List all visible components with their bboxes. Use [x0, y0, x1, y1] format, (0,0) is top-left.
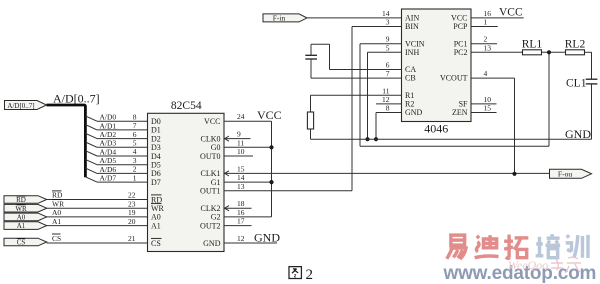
- wire WR (pin 23): [47, 199, 148, 208]
- svg-text:GND: GND: [565, 127, 591, 141]
- wire CLK1 pin 15 to F-out net: [224, 164, 550, 176]
- svg-text:1: 1: [133, 173, 137, 182]
- stub CLK0 pin 9: [224, 130, 251, 142]
- svg-text:RL2: RL2: [565, 39, 586, 51]
- wire PC2 pin 13 to RL1: [471, 43, 523, 52]
- svg-text:7: 7: [133, 121, 137, 130]
- wire RL1 to RL2: [542, 51, 566, 53]
- 4046 right pin names: [440, 14, 468, 118]
- junction G1-VCC: [269, 180, 273, 184]
- svg-text:9: 9: [237, 130, 241, 139]
- wire R1 pin 11 to resistor R: [311, 86, 402, 112]
- junction GND8-groundnet: [374, 137, 378, 141]
- svg-text:VCC: VCC: [499, 6, 523, 18]
- svg-text:14: 14: [237, 173, 245, 182]
- svg-text:ZEN: ZEN: [452, 108, 468, 117]
- wire CS (pin 21): [47, 234, 148, 243]
- resistor R vertical: [307, 112, 313, 129]
- svg-text:4046: 4046: [424, 122, 448, 136]
- svg-text:A1: A1: [17, 222, 26, 230]
- svg-text:D6: D6: [151, 169, 161, 178]
- wire VCC tie vertical to G0 G1 G2: [224, 121, 272, 217]
- bus entry + wire A/D0 (pin 8): [85, 112, 147, 121]
- svg-text:20: 20: [128, 217, 136, 226]
- bus entry + wire A/D4 (pin 4): [85, 147, 147, 156]
- svg-text:12: 12: [237, 234, 245, 243]
- svg-text:A/D5: A/D5: [100, 156, 117, 165]
- wire INH pin 5 to ground net: [368, 43, 402, 139]
- svg-text:7: 7: [386, 69, 390, 78]
- svg-text:A/D7: A/D7: [100, 174, 117, 183]
- svg-text:GND: GND: [405, 108, 423, 117]
- 4046 left pin names: [405, 14, 425, 118]
- svg-text:13: 13: [484, 43, 492, 52]
- bus entry + wire A/D1 (pin 7): [85, 121, 147, 130]
- svg-text:G0: G0: [211, 143, 221, 152]
- port connector A0: [4, 213, 47, 221]
- bus entry + wire A/D2 (pin 6): [85, 130, 147, 139]
- resistor RL2: [565, 39, 586, 55]
- svg-text:CLK1: CLK1: [201, 169, 221, 178]
- svg-text:PC2: PC2: [454, 48, 468, 57]
- svg-text:A/D6: A/D6: [100, 165, 117, 174]
- stub CLK2 pin 18: [224, 199, 252, 211]
- svg-text:CS: CS: [17, 239, 26, 247]
- wire VCIN pin 9 to loop filter: [360, 35, 549, 147]
- stub OUT2 pin 17: [224, 217, 252, 226]
- port connector F-out: [550, 169, 592, 178]
- svg-text:BIN: BIN: [405, 22, 419, 31]
- svg-text:F-in: F-in: [273, 14, 286, 23]
- svg-text:CS: CS: [52, 234, 61, 243]
- svg-text:WR: WR: [151, 204, 165, 213]
- stub GND pin 12 + GND label: [224, 230, 280, 244]
- svg-text:A/D2: A/D2: [100, 130, 117, 139]
- svg-text:A/D1: A/D1: [100, 121, 117, 130]
- svg-text:OUT0: OUT0: [200, 152, 220, 161]
- junction RL1-RL2-VCIN: [547, 50, 551, 54]
- svg-text:16: 16: [237, 208, 245, 217]
- junction VCOUT-CLK1-Fout: [512, 172, 516, 176]
- svg-text:A0: A0: [151, 213, 161, 222]
- svg-text:OUT1: OUT1: [200, 187, 220, 196]
- svg-text:4: 4: [133, 147, 137, 156]
- net label A/D[0..7]: [53, 92, 100, 106]
- svg-text:G2: G2: [211, 213, 221, 222]
- svg-text:15: 15: [484, 104, 492, 113]
- svg-text:A1: A1: [151, 221, 161, 230]
- stub SF pin 10: [471, 95, 497, 104]
- svg-text:VCC: VCC: [204, 117, 220, 126]
- wire CB pin 7 from capacitor C1: [311, 59, 402, 78]
- capacitor C1: [305, 55, 317, 59]
- svg-text:10: 10: [237, 147, 245, 156]
- bus entry + wire A/D3 (pin 5): [85, 139, 147, 148]
- bus A/D: [47, 105, 86, 177]
- svg-text:3: 3: [133, 156, 137, 165]
- svg-text:PCP: PCP: [453, 22, 468, 31]
- stub ZEN pin 15: [471, 104, 497, 113]
- svg-text:24: 24: [237, 112, 245, 121]
- svg-text:1: 1: [484, 18, 488, 27]
- svg-text:A/D0: A/D0: [100, 113, 117, 122]
- wire F-in to AIN pin 14: [307, 9, 402, 18]
- port connector CS: [4, 238, 47, 246]
- svg-text:A/D[0..7]: A/D[0..7]: [7, 102, 34, 110]
- svg-text:D5: D5: [151, 161, 161, 170]
- wire VCC pin 16 + VCC power label: [471, 6, 524, 18]
- svg-text:13: 13: [237, 182, 245, 191]
- 82C54 right pin names: [200, 117, 221, 248]
- svg-text:5: 5: [133, 139, 137, 148]
- svg-text:GND: GND: [254, 230, 280, 244]
- svg-text:D2: D2: [151, 134, 161, 143]
- svg-text:11: 11: [237, 138, 244, 147]
- ground net horizontal wire: [311, 138, 592, 140]
- svg-text:F-ou: F-ou: [558, 169, 572, 178]
- bus entry + wire A/D5 (pin 3): [85, 156, 147, 165]
- svg-text:8: 8: [133, 112, 137, 121]
- stub OUT0 pin 10: [224, 147, 253, 156]
- svg-text:22: 22: [128, 191, 136, 200]
- svg-text:A1: A1: [52, 217, 61, 226]
- svg-text:WR: WR: [15, 205, 27, 213]
- wire CL1 to ground net + GND label: [565, 84, 592, 141]
- wire resistor R to ground net: [310, 129, 312, 139]
- svg-text:4: 4: [484, 69, 488, 78]
- IC U2 4046: [402, 9, 472, 136]
- wire RD (pin 22): [47, 191, 148, 200]
- wire VCC pin 24 + VCC power label: [224, 108, 282, 122]
- port connector WR: [4, 204, 47, 212]
- bus entry + wire A/D7 (pin 1): [85, 173, 147, 182]
- stub PCP pin 1: [471, 18, 498, 27]
- svg-text:INH: INH: [405, 48, 419, 57]
- stub R2 pin 12: [376, 95, 402, 104]
- svg-text:VCOUT: VCOUT: [440, 74, 468, 83]
- wire VCOUT pin 4 to F-out net: [471, 69, 515, 174]
- svg-text:VCC: VCC: [257, 108, 282, 122]
- svg-text:A/D3: A/D3: [100, 139, 117, 148]
- wire RL2 to CL1: [585, 52, 592, 79]
- svg-text:D3: D3: [151, 143, 161, 152]
- svg-text:5: 5: [386, 43, 390, 52]
- svg-text:17: 17: [237, 217, 245, 226]
- port connector F-in: [263, 14, 307, 23]
- svg-text:CB: CB: [405, 74, 416, 83]
- svg-text:2: 2: [133, 165, 137, 174]
- IC U1 82C54: [148, 100, 225, 251]
- capacitor CL1: [566, 77, 597, 89]
- svg-text:23: 23: [128, 199, 136, 208]
- svg-text:OUT2: OUT2: [200, 221, 220, 230]
- wire GND pin 8 to ground net: [376, 104, 402, 140]
- junction G0-VCC: [269, 145, 273, 149]
- svg-text:CLK0: CLK0: [201, 134, 221, 143]
- svg-text:CLK2: CLK2: [201, 204, 221, 213]
- svg-text:3: 3: [386, 18, 390, 27]
- svg-text:CS: CS: [151, 239, 161, 248]
- wire CA pin 6 to capacitor C1: [311, 44, 402, 69]
- svg-text:D0: D0: [151, 117, 161, 126]
- svg-text:RL1: RL1: [522, 39, 543, 51]
- wire A0 (pin 19): [47, 208, 148, 217]
- svg-text:WeeQoo: WeeQoo: [508, 258, 548, 272]
- svg-text:A0: A0: [52, 208, 61, 217]
- svg-text:G1: G1: [211, 178, 221, 187]
- svg-text:RD: RD: [52, 191, 63, 200]
- svg-text:8: 8: [386, 104, 390, 113]
- svg-text:A/D4: A/D4: [100, 147, 117, 156]
- svg-text:A/D[0..7]: A/D[0..7]: [53, 92, 100, 106]
- svg-text:21: 21: [128, 234, 136, 243]
- port connector RD: [4, 196, 47, 204]
- svg-text:15: 15: [237, 164, 245, 173]
- svg-text:D1: D1: [151, 126, 161, 135]
- port connector A/D[0..7]: [5, 101, 47, 110]
- svg-text:82C54: 82C54: [171, 100, 202, 112]
- svg-text:GND: GND: [203, 239, 221, 248]
- wire OUT1 pin 13 to BIN: [224, 27, 352, 191]
- bus entry + wire A/D6 (pin 2): [85, 165, 147, 174]
- figure caption: [289, 267, 313, 283]
- resistor RL1: [522, 39, 543, 55]
- svg-text:RD: RD: [151, 195, 162, 204]
- junction INH-GND: [365, 137, 369, 141]
- wire A1 (pin 20): [47, 217, 148, 226]
- svg-text:D4: D4: [151, 152, 161, 161]
- wire BIN pin 3 from OUT1: [352, 18, 402, 27]
- port connector A1: [4, 222, 47, 230]
- svg-text:D7: D7: [151, 178, 161, 187]
- svg-text:A0: A0: [17, 214, 26, 222]
- 82C54 left pin names: [151, 117, 165, 248]
- svg-text:2: 2: [306, 267, 314, 283]
- svg-text:CL1: CL1: [566, 77, 587, 89]
- stub PC1 pin 2: [471, 35, 497, 44]
- svg-text:WR: WR: [52, 199, 64, 208]
- svg-text:6: 6: [133, 130, 137, 139]
- svg-text:18: 18: [237, 199, 245, 208]
- svg-text:RD: RD: [16, 196, 26, 204]
- svg-text:19: 19: [128, 208, 136, 217]
